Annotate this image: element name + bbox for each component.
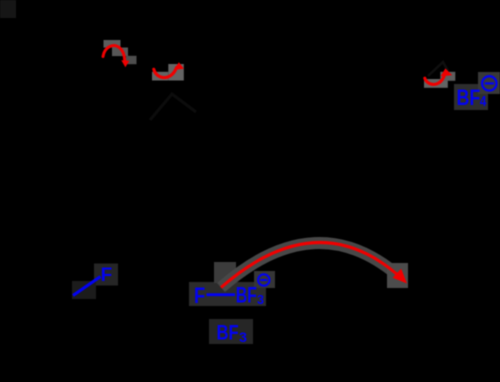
curved arrow A3 (top-right, head pointing up) [425,68,452,84]
curved arrow A1 (top-left, head pointing down) [103,46,129,68]
svg-text:3: 3 [257,292,264,307]
counterion BF4- (top right) [457,76,497,110]
svg-text:4: 4 [480,93,487,110]
svg-text:3: 3 [239,329,247,345]
long curved arrow A4 (F to carbocation) [221,242,407,287]
fluorine on product (bottom-left): bond + F label [73,264,112,296]
faint product skeleton fragment [428,62,448,76]
svg-text:BF: BF [236,283,257,308]
fluoroborate F-BF3 (minus) [194,274,269,308]
curved arrow A2 (head pointing up-right) [154,62,184,77]
jpeg artifact blocks under curved arrow A2 [152,64,184,81]
jpeg artifact blocks under counterion BF4- [454,72,500,110]
svg-text:F: F [194,283,205,308]
jpeg artifact blocks under curved arrow A3 [424,72,455,88]
svg-text:F: F [101,264,113,286]
faint reactant skeleton fragment [150,94,196,120]
jpeg artifact blocks under leaving group BF3 [209,319,253,344]
jpeg artifact band under long curved arrow A4 [221,243,408,288]
jpeg artifact blocks under fluoroborate F-BF3 [189,262,275,306]
svg-text:BF: BF [457,85,481,110]
svg-text:BF: BF [217,320,239,344]
jpeg artifact blocks under fluorine label and bond [72,264,118,300]
leaving group BF3 (bottom) [217,320,248,345]
faint corner artifact block [0,0,16,18]
jpeg artifact blocks under curved arrow A1 [104,40,137,64]
